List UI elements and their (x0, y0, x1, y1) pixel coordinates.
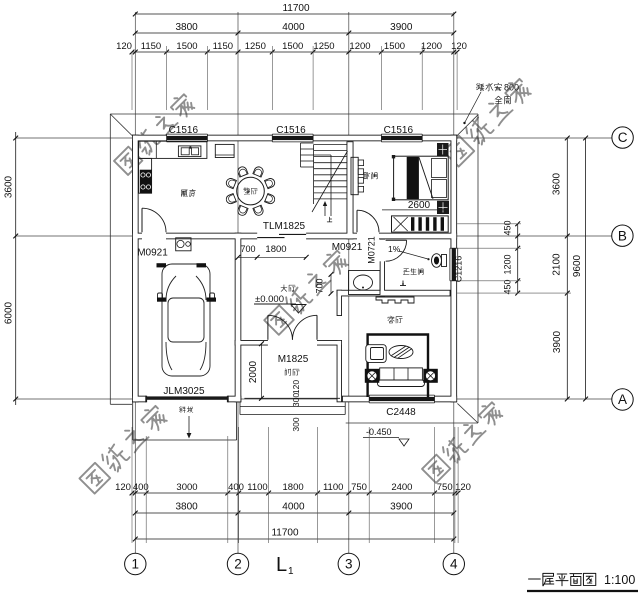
svg-text:450: 450 (503, 279, 513, 294)
svg-text:C: C (618, 130, 628, 145)
svg-text:1100: 1100 (247, 482, 267, 493)
svg-text:800: 800 (504, 83, 519, 93)
svg-text:1800: 1800 (265, 244, 286, 255)
svg-text:750: 750 (437, 482, 453, 493)
svg-text:3900: 3900 (552, 330, 563, 353)
svg-text:B: B (618, 228, 627, 243)
svg-text:1200: 1200 (421, 41, 442, 52)
svg-text:M0721: M0721 (367, 236, 377, 264)
svg-text:C1516: C1516 (384, 125, 414, 136)
svg-text:450: 450 (503, 220, 513, 235)
svg-text:120: 120 (291, 380, 301, 394)
svg-text:750: 750 (351, 482, 367, 493)
svg-text:3000: 3000 (176, 482, 197, 493)
svg-text:3800: 3800 (175, 502, 198, 513)
svg-text:3: 3 (345, 557, 353, 572)
svg-text:1100: 1100 (323, 482, 343, 493)
svg-text:4000: 4000 (282, 502, 305, 513)
svg-text:1200: 1200 (503, 254, 513, 274)
svg-text:120: 120 (116, 41, 132, 52)
svg-text:1:100: 1:100 (604, 573, 635, 587)
svg-text:M0921: M0921 (332, 242, 363, 253)
svg-text:300: 300 (291, 417, 301, 431)
svg-text:400: 400 (228, 482, 244, 493)
svg-text:11700: 11700 (271, 528, 299, 539)
svg-text:1500: 1500 (384, 41, 405, 52)
svg-text:1800: 1800 (283, 482, 304, 493)
svg-text:1200: 1200 (349, 41, 370, 52)
svg-text:TLM1825: TLM1825 (263, 221, 306, 232)
svg-text:1%: 1% (388, 244, 401, 254)
svg-text:C1516: C1516 (276, 125, 306, 136)
svg-text:1150: 1150 (213, 41, 233, 52)
svg-text:700: 700 (240, 244, 255, 254)
svg-text:M1825: M1825 (278, 354, 309, 365)
svg-text:-0.450: -0.450 (366, 427, 392, 437)
svg-text:3600: 3600 (4, 175, 15, 198)
svg-text:2000: 2000 (248, 360, 259, 383)
svg-text:3900: 3900 (390, 22, 413, 33)
svg-text:A: A (618, 392, 627, 407)
svg-text:1: 1 (288, 566, 294, 577)
svg-text:1500: 1500 (282, 41, 303, 52)
svg-text:4: 4 (450, 557, 458, 572)
svg-text:120: 120 (455, 482, 471, 493)
svg-text:C2448: C2448 (386, 407, 416, 418)
svg-text:2100: 2100 (552, 253, 563, 276)
svg-text:2400: 2400 (391, 482, 412, 493)
svg-text:C1516: C1516 (169, 125, 199, 136)
svg-text:4000: 4000 (282, 22, 305, 33)
svg-text:2600: 2600 (408, 200, 431, 211)
svg-text:JLM3025: JLM3025 (163, 386, 205, 397)
svg-text:1150: 1150 (141, 41, 161, 52)
svg-text:700: 700 (315, 278, 325, 293)
svg-text:120: 120 (115, 482, 131, 493)
svg-text:C1216: C1216 (454, 256, 464, 283)
svg-text:6000: 6000 (4, 301, 15, 324)
svg-text:120: 120 (451, 41, 467, 52)
svg-text:±0.000: ±0.000 (255, 294, 284, 305)
svg-text:1500: 1500 (176, 41, 197, 52)
svg-text:2: 2 (234, 557, 242, 572)
svg-text:3600: 3600 (552, 172, 563, 195)
svg-text:1250: 1250 (245, 41, 266, 52)
svg-text:L: L (276, 554, 287, 576)
svg-text:3800: 3800 (175, 22, 198, 33)
svg-text:9600: 9600 (572, 254, 583, 277)
svg-text:1250: 1250 (313, 41, 334, 52)
svg-text:M0921: M0921 (137, 248, 168, 259)
svg-text:11700: 11700 (282, 3, 310, 14)
svg-text:3900: 3900 (390, 502, 413, 513)
svg-text:1: 1 (132, 557, 140, 572)
